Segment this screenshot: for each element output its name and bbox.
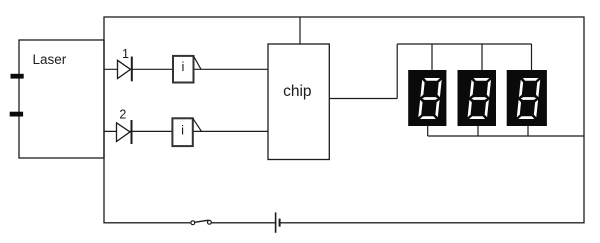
svg-text:i: i	[181, 122, 184, 137]
svg-text:Laser: Laser	[33, 52, 67, 67]
svg-text:chip: chip	[283, 83, 311, 100]
svg-text:i: i	[182, 59, 185, 74]
svg-text:2: 2	[119, 108, 126, 122]
svg-text:1: 1	[122, 47, 129, 61]
